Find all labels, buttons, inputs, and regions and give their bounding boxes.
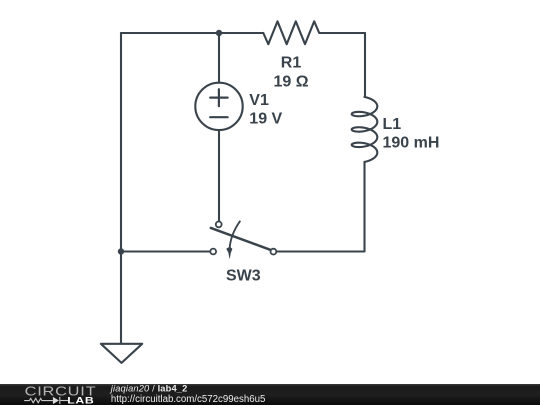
svg-text:LAB: LAB (67, 396, 94, 405)
svg-text:L1: L1 (383, 116, 402, 133)
svg-text:R1: R1 (281, 55, 302, 72)
svg-text:SW3: SW3 (226, 268, 261, 285)
svg-text:http://circuitlab.com/c572c99e: http://circuitlab.com/c572c99esh6u5 (111, 394, 266, 405)
svg-text:190 mH: 190 mH (383, 134, 440, 151)
svg-text:19 V: 19 V (249, 110, 282, 127)
svg-text:V1: V1 (249, 92, 269, 109)
svg-text:jiaqian20 / lab4_2: jiaqian20 / lab4_2 (109, 383, 188, 393)
svg-text:19 Ω: 19 Ω (273, 74, 308, 91)
